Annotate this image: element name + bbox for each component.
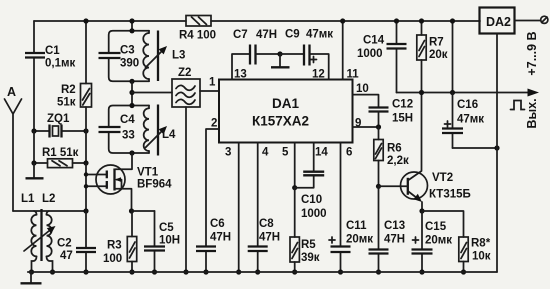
- capacitor C7: [233, 29, 280, 65]
- node C5 bottom: [152, 269, 157, 274]
- node R5 bottom: [292, 269, 297, 274]
- wire L1 L2 top: [13, 210, 86, 212]
- IC DA2: [480, 8, 515, 273]
- svg-text:14: 14: [315, 147, 328, 159]
- node Z2 tap: [129, 90, 134, 95]
- svg-text:R2: R2: [61, 84, 76, 96]
- pin 5 wire: [282, 143, 295, 188]
- svg-text:VT1: VT1: [137, 167, 159, 179]
- svg-text:C2: C2: [57, 238, 72, 250]
- node tank2 bottom / VT1 drain: [129, 150, 134, 155]
- node C15 bottom: [419, 269, 424, 274]
- svg-text:C5: C5: [159, 222, 174, 234]
- svg-text:47Н: 47Н: [256, 29, 277, 41]
- node C13 bottom: [376, 269, 381, 274]
- inductor L1: [21, 193, 37, 272]
- ground below R1: [26, 163, 44, 178]
- svg-text:390: 390: [120, 58, 139, 70]
- node L1 bottom: [29, 269, 34, 274]
- svg-text:C13: C13: [384, 220, 405, 232]
- node R1 left junction: [31, 160, 36, 165]
- wire Z2 bottom to ground: [185, 107, 187, 272]
- node rail drop: [450, 18, 455, 23]
- svg-text:А: А: [7, 85, 16, 99]
- node C2 bottom: [83, 269, 88, 274]
- node VT2 emitter junction: [419, 208, 424, 213]
- inductor L4: [144, 105, 176, 156]
- svg-text:C6: C6: [210, 218, 225, 230]
- svg-text:C4: C4: [120, 114, 135, 126]
- pin 13 wire: [232, 54, 250, 81]
- wire bottom ground rail: [28, 271, 497, 273]
- wire rail to tank1: [131, 21, 133, 31]
- node pin3 ground: [236, 269, 241, 274]
- transistor VT2: [379, 93, 471, 212]
- ground mid top: [271, 54, 290, 67]
- svg-text:R3: R3: [107, 240, 122, 252]
- node R7 bottom output: [419, 90, 424, 95]
- resistor R8: [422, 211, 491, 272]
- L1/L2 tuning arrow: [24, 226, 56, 251]
- capacitor C4: [99, 106, 150, 154]
- svg-text:4: 4: [262, 147, 269, 159]
- node ZQ1/R2 junction: [83, 128, 88, 133]
- svg-text:C7: C7: [233, 29, 248, 41]
- svg-text:R8*: R8*: [471, 238, 491, 250]
- svg-text:К157ХА2: К157ХА2: [252, 114, 309, 129]
- svg-text:DA1: DA1: [272, 96, 299, 111]
- wire C16 bottom to DA2 ground: [453, 147, 498, 149]
- svg-text:15Н: 15Н: [392, 113, 413, 125]
- resistor R3: [103, 211, 137, 272]
- ground main: [21, 272, 42, 283]
- capacitor C2: [57, 211, 96, 272]
- node R3 bottom: [129, 269, 134, 274]
- node R2 top rail junction: [83, 18, 88, 23]
- node L2 bottom: [50, 269, 55, 274]
- svg-text:33: 33: [122, 130, 135, 142]
- svg-text:C12: C12: [392, 99, 413, 111]
- svg-text:C9: C9: [285, 29, 300, 41]
- resistor R4: [179, 16, 216, 42]
- svg-text:39к: 39к: [301, 252, 320, 264]
- svg-text:R1 51к: R1 51к: [42, 147, 79, 159]
- svg-text:51к: 51к: [57, 97, 76, 109]
- svg-text:L2: L2: [42, 193, 55, 205]
- capacitor C16: [442, 93, 484, 149]
- svg-text:1000: 1000: [301, 208, 327, 220]
- node C11 bottom: [338, 269, 343, 274]
- svg-text:+7...9 В: +7...9 В: [525, 31, 539, 75]
- svg-text:Вых.: Вых.: [525, 98, 539, 128]
- svg-text:L1: L1: [21, 193, 35, 205]
- node pin5/C10 junction: [292, 185, 297, 190]
- svg-text:C3: C3: [120, 45, 135, 57]
- svg-text:9: 9: [355, 118, 361, 130]
- filter Z2: [172, 67, 200, 107]
- wire top rail left segment: [34, 20, 186, 22]
- svg-text:2: 2: [211, 118, 217, 130]
- svg-text:6: 6: [346, 147, 352, 159]
- transistor VT1: [96, 153, 172, 211]
- node gate2 tap: [84, 172, 88, 176]
- wire source row: [132, 210, 155, 212]
- svg-text:L4: L4: [162, 129, 176, 141]
- svg-text:20мк: 20мк: [346, 234, 373, 246]
- capacitor C5: [144, 211, 180, 272]
- antenna A: [5, 85, 22, 211]
- node gate1 tap: [84, 184, 88, 188]
- svg-text:13: 13: [234, 69, 247, 81]
- svg-text:47мк: 47мк: [306, 29, 333, 41]
- svg-text:R4 100: R4 100: [179, 30, 216, 42]
- svg-text:ZQ1: ZQ1: [47, 113, 70, 125]
- capacitor C1: [25, 21, 75, 131]
- capacitor C15: [412, 211, 453, 272]
- svg-text:КТ315Б: КТ315Б: [429, 189, 471, 201]
- svg-text:C1: C1: [45, 45, 60, 57]
- svg-text:47Н: 47Н: [259, 232, 280, 244]
- resistor R5: [290, 188, 320, 272]
- svg-text:R6: R6: [387, 143, 402, 155]
- svg-text:0,1мк: 0,1мк: [45, 58, 75, 70]
- L1/L2 core: [40, 209, 42, 261]
- node tank1 rail junction: [129, 18, 134, 23]
- node C6 bottom: [203, 269, 208, 274]
- svg-text:L3: L3: [172, 50, 185, 62]
- node R7 rail: [419, 18, 424, 23]
- svg-text:5: 5: [282, 147, 289, 159]
- pin 2 wire and capacitor C6: [196, 118, 231, 273]
- node C16 top output: [450, 90, 455, 95]
- svg-text:C11: C11: [346, 220, 367, 232]
- wire Z2 left: [132, 92, 172, 94]
- pin 3 wire: [225, 143, 239, 272]
- svg-text:1000: 1000: [357, 48, 383, 60]
- pin 9 wire: [353, 118, 379, 130]
- svg-text:3: 3: [225, 147, 231, 159]
- node R8 bottom: [461, 269, 466, 274]
- svg-text:C14: C14: [363, 35, 385, 47]
- node C1/ZQ1 junction: [31, 128, 36, 133]
- svg-text:C15: C15: [425, 221, 447, 233]
- wire rail drop to output line: [452, 21, 454, 93]
- svg-text:47Н: 47Н: [384, 234, 405, 246]
- svg-text:11: 11: [347, 69, 360, 81]
- node Z2 ground: [183, 269, 188, 274]
- capacitor C3: [99, 31, 150, 82]
- crystal ZQ1: [34, 113, 86, 138]
- svg-text:BF964: BF964: [137, 179, 172, 191]
- wire output line: [397, 89, 540, 97]
- node R1 right junction: [83, 160, 88, 165]
- svg-text:47мк: 47мк: [457, 114, 484, 126]
- svg-text:C16: C16: [457, 99, 478, 111]
- node C2 top junction: [83, 208, 88, 213]
- svg-text:10Н: 10Н: [159, 235, 180, 247]
- svg-text:20мк: 20мк: [425, 235, 452, 247]
- IC DA1: [219, 80, 353, 143]
- svg-text:C8: C8: [259, 218, 274, 230]
- pin 4 wire and capacitor C8: [248, 143, 280, 272]
- inductor L3: [143, 31, 185, 82]
- svg-text:DA2: DA2: [486, 15, 511, 29]
- svg-text:47Н: 47Н: [210, 232, 231, 244]
- node VT2 base tap: [376, 184, 381, 189]
- pin 10 wire and capacitor C12: [353, 83, 414, 127]
- capacitor C13: [369, 186, 406, 272]
- node C16/DA2 ground junction: [494, 145, 499, 150]
- inductor L2: [42, 193, 55, 272]
- node tank1 top: [129, 28, 134, 33]
- resistor R1: [34, 131, 86, 168]
- pulse symbol: [511, 101, 525, 110]
- svg-text:47: 47: [60, 250, 73, 262]
- resistor R7: [417, 21, 448, 93]
- node C7/C9 ground junction: [277, 51, 282, 56]
- wire top rail right segment: [211, 20, 480, 22]
- wire gate1 lead: [86, 185, 107, 187]
- wire gate2 lead: [86, 163, 107, 211]
- capacitor C9: [280, 29, 333, 80]
- resistor R2: [57, 21, 92, 131]
- node tank2 top: [129, 103, 134, 108]
- node C8 bottom: [255, 269, 260, 274]
- node tank1 bottom: [129, 79, 134, 84]
- svg-text:1: 1: [209, 77, 216, 89]
- node C14 rail: [394, 18, 399, 23]
- resistor R6: [374, 127, 409, 186]
- capacitor C14: [357, 21, 407, 93]
- svg-text:VT2: VT2: [432, 172, 453, 184]
- svg-text:10: 10: [356, 83, 369, 95]
- pin 6 wire and capacitor C11: [329, 143, 373, 272]
- svg-text:2,2к: 2,2к: [387, 155, 409, 167]
- svg-text:R5: R5: [301, 239, 316, 251]
- node VT1 source junction: [129, 208, 134, 213]
- svg-text:12: 12: [312, 69, 325, 81]
- svg-text:R7: R7: [429, 37, 444, 49]
- power terminal: [515, 16, 548, 23]
- svg-text:C10: C10: [301, 194, 322, 206]
- wire Z2 to pin1: [200, 90, 219, 92]
- node pin9/C12/R6 junction: [376, 124, 381, 129]
- node pin11 rail: [340, 18, 345, 23]
- capacitor C10: [295, 143, 329, 220]
- svg-text:20к: 20к: [429, 49, 448, 61]
- wire tank1 to tank2: [131, 81, 133, 105]
- svg-text:100: 100: [103, 253, 122, 265]
- svg-text:Z2: Z2: [178, 67, 191, 79]
- svg-text:10к: 10к: [472, 251, 491, 263]
- pin 11 wire: [343, 21, 360, 81]
